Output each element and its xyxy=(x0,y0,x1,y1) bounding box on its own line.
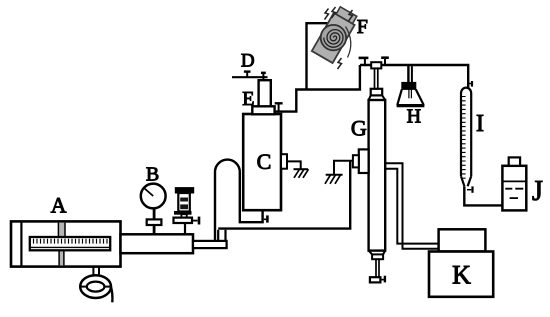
svg-text:C: C xyxy=(257,149,272,174)
svg-text:G: G xyxy=(351,116,367,141)
svg-text:F: F xyxy=(357,16,368,38)
svg-text:J: J xyxy=(532,176,543,207)
tick valve right of G top xyxy=(381,58,389,65)
column G body xyxy=(369,100,386,251)
valve D line and ticks xyxy=(232,72,268,81)
column G top fitting xyxy=(369,62,386,100)
syringe valve on pipe xyxy=(174,188,200,235)
handwheel under A xyxy=(80,267,112,303)
svg-text:E: E xyxy=(242,88,254,110)
side tick at I bottom xyxy=(467,186,473,192)
thermocouple hatch at G xyxy=(325,161,353,184)
detector K lower box xyxy=(429,252,493,297)
pipe from C top to compressor F xyxy=(274,65,360,112)
left nozzle of G xyxy=(353,149,369,173)
cap under E xyxy=(252,106,274,114)
vessel C xyxy=(243,114,281,210)
syringe pump A body xyxy=(11,221,121,266)
bottle J xyxy=(502,157,526,210)
svg-text:H: H xyxy=(407,106,421,128)
main pipe from A xyxy=(121,234,194,253)
double pipe from G to K xyxy=(385,163,438,249)
flask H xyxy=(397,82,425,105)
branch into flask H xyxy=(408,66,412,82)
drain tick at C bottom xyxy=(264,215,268,222)
svg-text:B: B xyxy=(146,164,159,186)
pipe from junction to column G xyxy=(218,161,350,229)
svg-text:A: A xyxy=(51,193,67,218)
thermocouple hatch at C xyxy=(287,161,309,177)
measuring tube I xyxy=(461,88,471,187)
pressure gauge B xyxy=(141,184,166,235)
outlet pipe from I to J xyxy=(464,186,502,205)
cylinder E xyxy=(259,80,271,106)
ruler scale of A xyxy=(30,237,110,250)
svg-text:D: D xyxy=(241,51,255,72)
svg-text:I: I xyxy=(476,111,484,137)
side tick at I top xyxy=(469,81,472,87)
arch pipe to vessel C xyxy=(215,160,263,241)
column G bottom drain xyxy=(369,251,386,283)
overhead line from F to I xyxy=(360,65,468,88)
frame of F xyxy=(307,23,339,89)
tick valve left of G top xyxy=(359,58,369,65)
nozzle on right of C xyxy=(281,154,287,169)
narrow pipe xyxy=(193,241,227,248)
plunger bar of A xyxy=(58,223,65,266)
svg-text:K: K xyxy=(452,261,471,290)
compressor F xyxy=(312,6,359,69)
detector K upper box xyxy=(439,229,486,251)
junction ticks on narrow pipe xyxy=(218,230,225,241)
